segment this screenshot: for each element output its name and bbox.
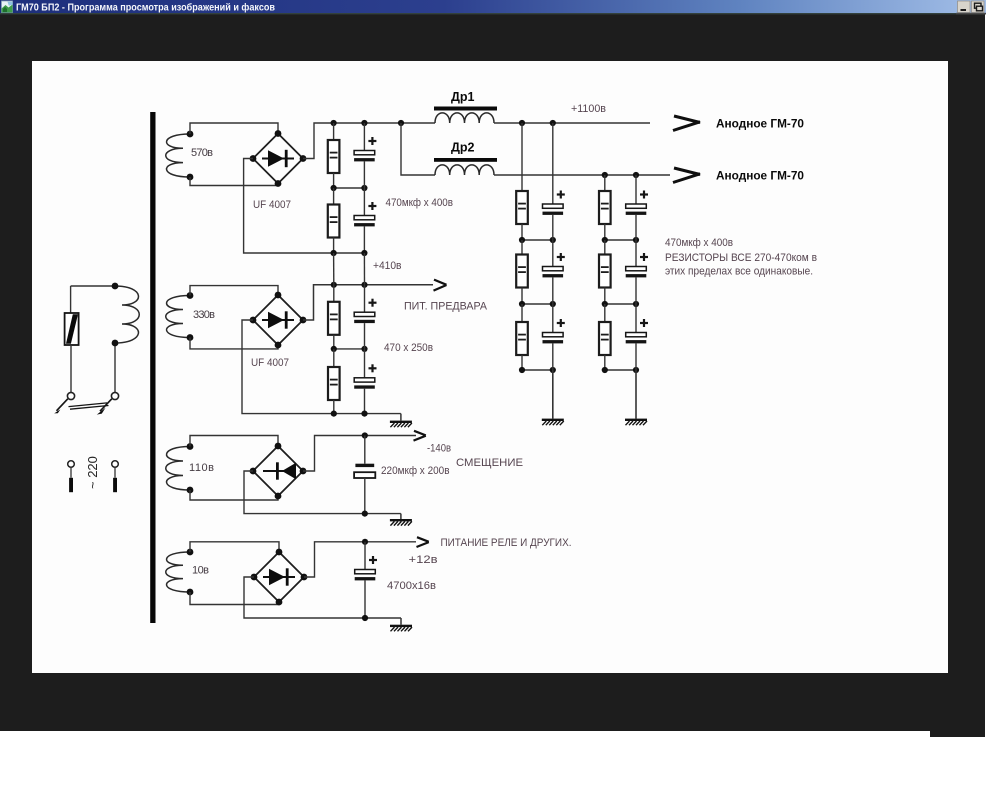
switch S1 lever B with arrow (97, 399, 112, 415)
wire: bridge3 minus to -140 rail (303, 436, 416, 472)
fuse F1 (65, 313, 79, 345)
node: ladder2 C tap (633, 172, 639, 178)
node (519, 367, 525, 373)
wire: ladder2 junction 2 (605, 303, 636, 305)
wire: bridge4 plus to +12 rail (304, 542, 416, 577)
wire: fuse to switch (70, 345, 72, 392)
node (550, 301, 556, 307)
wire: rail to C9 (364, 285, 366, 312)
svg-text:Анодное ГМ-70: Анодное ГМ-70 (716, 117, 804, 131)
node (362, 539, 368, 545)
wire: gnd stub supply3 (400, 514, 402, 519)
svg-text:~ 220: ~ 220 (85, 456, 100, 489)
wire: winding2 top to bridge2 (190, 286, 278, 296)
node: ladder1 C tap (550, 120, 556, 126)
wire: stack link C (363, 253, 365, 285)
svg-text:330в: 330в (193, 309, 215, 321)
svg-text:470мкф x 400в: 470мкф x 400в (386, 197, 454, 209)
wire (364, 349, 366, 378)
node (362, 510, 368, 516)
diode symbol U2 (262, 311, 294, 328)
resistor R1 (328, 140, 340, 173)
wire: plug A lead (70, 467, 72, 477)
svg-text:СМЕЩЕНИЕ: СМЕЩЕНИЕ (456, 457, 523, 469)
wire (604, 240, 606, 255)
primary winding (right bulge) (115, 286, 139, 343)
node B (361, 120, 367, 126)
wire (521, 240, 523, 255)
wire (521, 288, 523, 305)
svg-text:ПИТ. ПРЕДВАРА: ПИТ. ПРЕДВАРА (404, 301, 488, 313)
wire: bridge4 minus to gnd bus (244, 577, 401, 618)
wire: ladder1 to ground (552, 370, 554, 419)
title bar app icon (2, 1, 13, 13)
ground supply3 (390, 519, 412, 526)
arrow: anode 2 (673, 168, 700, 183)
wire: bridge2 minus to gnd bus (242, 320, 401, 414)
svg-text:UF 4007: UF 4007 (253, 199, 291, 211)
svg-text:10в: 10в (192, 565, 209, 577)
wire: mid to R2 (333, 188, 335, 205)
wire: mid to C2 (363, 188, 365, 216)
capacitor C8 (626, 319, 648, 343)
node (602, 237, 608, 243)
wire: primary bottom to switch (114, 343, 116, 392)
node: ladder2 R tap (602, 172, 608, 178)
wire: primary top (71, 285, 115, 287)
node (361, 411, 367, 417)
resistor R2 (328, 205, 340, 238)
capacitor C9 (354, 299, 376, 323)
switch S1 lever A (54, 399, 68, 414)
wire (552, 215, 554, 240)
svg-text:-140в: -140в (427, 443, 451, 455)
wire (333, 349, 335, 367)
svg-text:UF 4007: UF 4007 (251, 357, 289, 369)
node (550, 237, 556, 243)
wire (333, 400, 335, 414)
svg-text:570в: 570в (191, 147, 213, 159)
diode symbol U1 (262, 150, 294, 167)
diode symbol U4 (263, 568, 295, 585)
resistor R4 (516, 255, 528, 288)
node: bottom bus R (331, 250, 337, 256)
resistor R5 (516, 322, 528, 355)
wire: bus to C1 (363, 123, 365, 151)
resistor R10 (328, 367, 340, 400)
svg-text:ПИТАНИЕ РЕЛЕ И ДРУГИХ.: ПИТАНИЕ РЕЛЕ И ДРУГИХ. (441, 537, 572, 549)
node C (398, 120, 404, 126)
switch S1 pole B contact (111, 392, 118, 399)
wire (604, 288, 606, 305)
capacitor C4 (543, 253, 565, 277)
ground ladder2 (625, 419, 647, 426)
wire: stack link R (333, 253, 335, 285)
wire (604, 304, 606, 322)
button shadow line (956, 13, 986, 15)
svg-text:+1100в: +1100в (571, 103, 606, 115)
wire: winding1 bottom to bridge1 AC2 (190, 177, 278, 186)
node (550, 367, 556, 373)
wire: C2 to bottom bus (363, 226, 365, 253)
wire (635, 240, 637, 267)
wire: plug B lead (114, 467, 116, 477)
wire (552, 304, 554, 333)
wire (635, 277, 637, 304)
svg-text:+410в: +410в (373, 260, 402, 272)
winding 110в (166, 447, 190, 491)
arrow: -140 output (414, 431, 426, 441)
wire: R1 to mid node (333, 173, 335, 188)
node (602, 367, 608, 373)
ground supply2 (390, 421, 412, 428)
restore button (972, 1, 985, 13)
node (361, 346, 367, 352)
wire (333, 335, 335, 349)
choke Др1 core bar (434, 107, 497, 111)
node A (331, 120, 337, 126)
wire: ladder1 bottom junction (522, 369, 553, 371)
title bar (0, 0, 986, 14)
node (331, 411, 337, 417)
white page (scanned schematic sheet) (32, 61, 948, 673)
wire: ladder2 R column top (604, 175, 606, 191)
switch S1 mechanical link (double line) (69, 403, 109, 409)
node: ladder1 R tap (519, 120, 525, 126)
bridge rectifier U4 (251, 549, 308, 606)
wire (364, 389, 366, 414)
wire: ladder2 junction 1 (605, 239, 636, 241)
minimize button (958, 1, 971, 13)
plug contact A (68, 461, 75, 468)
node (633, 367, 639, 373)
plug pin B (113, 478, 117, 492)
wire: ladder1 junction 2 (522, 303, 553, 305)
wire: gnd stub supply4 (400, 618, 402, 625)
wire: ladder2 to ground (635, 370, 637, 419)
wire (521, 304, 523, 322)
bridge rectifier U2 UF4007 (250, 292, 307, 349)
ground supply4 (390, 625, 412, 632)
winding 10в (166, 552, 190, 592)
wire: bridge2 plus to +410 rail (303, 285, 433, 320)
wire: gnd stub supply2 (400, 414, 402, 421)
wire: supply2 mid junction (334, 348, 365, 350)
node: winding2 bottom (187, 334, 194, 341)
capacitor C3 (543, 191, 565, 215)
wire (635, 304, 637, 333)
wire: winding2 bottom to bridge2 (190, 338, 278, 349)
node (519, 301, 525, 307)
resistor R7 (599, 255, 611, 288)
node (331, 346, 337, 352)
node: winding1 bottom (187, 174, 194, 181)
wire: C12 to gnd bus (364, 580, 366, 618)
choke Др1 winding (435, 113, 494, 123)
svg-text:этих пределах все одинаковые.: этих пределах все одинаковые. (665, 266, 813, 278)
svg-text:Др2: Др2 (451, 141, 475, 155)
resistor R9 (328, 302, 340, 335)
node: winding4 top (187, 549, 194, 556)
wire (552, 240, 554, 267)
node: winding3 top (187, 443, 194, 450)
capacitor C11 (reversed polarity) (354, 464, 375, 478)
capacitor C1 (354, 137, 376, 161)
wire: ladder2 bottom junction (605, 369, 636, 371)
transformer core (150, 112, 155, 623)
note text block (665, 237, 817, 278)
node: R1/R2 junction (331, 185, 337, 191)
node (602, 301, 608, 307)
diode symbol U3 (reversed) (263, 462, 296, 479)
node: winding4 bottom (187, 589, 194, 596)
winding 570в (166, 134, 190, 177)
arrow: +410 output (434, 280, 447, 291)
wire (604, 224, 606, 240)
wire: winding3 top to bridge3 (190, 436, 278, 447)
node: winding3 bottom (187, 487, 194, 494)
ground ladder1 (542, 419, 564, 426)
wire (521, 224, 523, 240)
wire: winding4 bottom to bridge4 (190, 592, 279, 605)
node (633, 237, 639, 243)
arrow: +12 output (417, 537, 429, 547)
wire: bridge1 minus to bottom bus (244, 159, 365, 254)
node (362, 615, 368, 621)
wire: rail to C11 (364, 436, 366, 464)
winding 330в (166, 296, 190, 338)
svg-text:РЕЗИСТОРЫ ВСЕ 270-470ком в: РЕЗИСТОРЫ ВСЕ 270-470ком в (665, 252, 817, 264)
wire: winding3 bottom to bridge3 (190, 490, 278, 500)
node: C1/C2 junction (361, 185, 367, 191)
wire: C1 to mid (363, 161, 365, 188)
node: primary bottom (112, 340, 119, 347)
capacitor C2 (354, 202, 376, 226)
svg-text:470мкф x 400в: 470мкф x 400в (665, 237, 733, 249)
capacitor C12 (355, 556, 377, 580)
wire: rail to R9 (333, 285, 335, 302)
wire: mid junction R/C (334, 187, 365, 189)
node (331, 282, 337, 288)
wire: ladder2 C column top (635, 175, 637, 204)
resistor R6 (599, 191, 611, 224)
svg-text:220мкф x 200в: 220мкф x 200в (381, 465, 450, 477)
wire (604, 355, 606, 370)
svg-text:Анодное ГМ-70: Анодное ГМ-70 (716, 169, 804, 183)
switch S1 pole A contact (67, 392, 74, 399)
capacitor C10 (354, 364, 376, 388)
capacitor C6 (626, 191, 648, 215)
wire: +1100 line (494, 122, 650, 124)
wire (635, 215, 637, 240)
plug contact B (112, 461, 119, 468)
svg-text:110в: 110в (189, 462, 214, 474)
bridge rectifier U1 UF4007 (250, 130, 307, 187)
wire: C11 to gnd bus (364, 478, 366, 514)
resistor R3 (516, 191, 528, 224)
svg-text:Др1: Др1 (451, 90, 475, 104)
node: winding2 top (187, 292, 194, 299)
node: primary top (112, 283, 119, 290)
wire (364, 323, 366, 349)
wire (552, 343, 554, 370)
choke Др2 core bar (434, 158, 497, 162)
wire (552, 277, 554, 304)
svg-text:470 x 250в: 470 x 250в (384, 342, 433, 354)
node: bottom bus C (361, 250, 367, 256)
node (519, 237, 525, 243)
svg-text:4700x16в: 4700x16в (387, 580, 436, 592)
wire: winding1 top to bridge1 AC1 (190, 123, 278, 134)
svg-text:ГМ70 БП2 - Программа просмотра: ГМ70 БП2 - Программа просмотра изображен… (16, 2, 275, 14)
wire: ladder1 C column top (552, 123, 554, 204)
wire: bridge3 plus to gnd bus (244, 471, 401, 514)
wire: ladder1 junction 1 (522, 239, 553, 241)
wire: winding4 top to bridge4 (190, 542, 279, 552)
svg-text:+12в: +12в (409, 554, 438, 566)
wire (635, 343, 637, 370)
wire: fuse drop (70, 286, 72, 313)
node (361, 282, 367, 288)
wire (521, 355, 523, 370)
arrow: anode 1 (673, 116, 700, 131)
resistor R8 (599, 322, 611, 355)
wire: anode 2 line (494, 174, 670, 176)
node: winding1 top (187, 131, 194, 138)
capacitor C5 (543, 319, 565, 343)
bridge rectifier U3 (250, 443, 307, 500)
node (362, 432, 368, 438)
wire: bus drop to Др2 (401, 123, 435, 175)
plug pin A (69, 478, 73, 492)
wire: ladder1 R column top (521, 123, 523, 191)
wire: rail to C12 (364, 542, 366, 570)
choke Др2 winding (435, 165, 494, 175)
wire: bus to R1 (333, 123, 335, 140)
wire: bridge1 plus to +800 bus (303, 123, 435, 159)
capacitor C7 (626, 253, 648, 277)
wire: R2 to bottom bus (333, 238, 335, 254)
node (633, 301, 639, 307)
